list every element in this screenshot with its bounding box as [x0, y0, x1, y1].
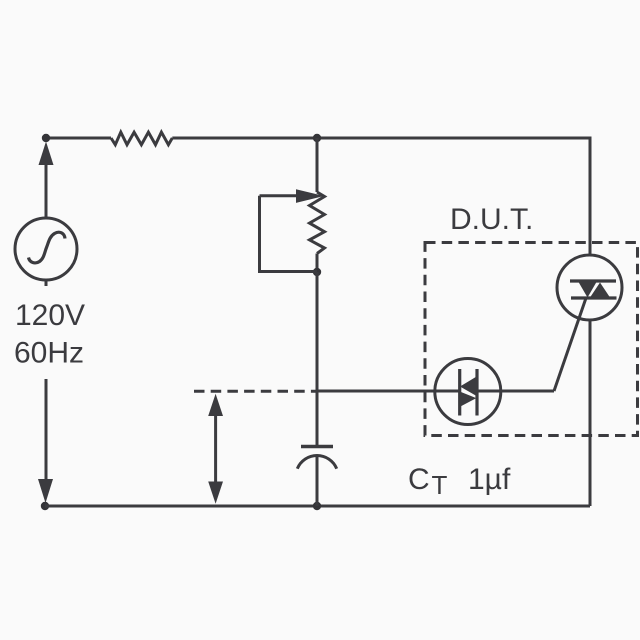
resistor R1 — [111, 132, 172, 145]
arrowhead down at source bottom — [38, 479, 53, 503]
arrowhead up at source top — [39, 142, 54, 166]
AC source sine symbol — [29, 232, 66, 263]
svg-text:1µf: 1µf — [468, 463, 511, 496]
dashed box D.U.T. — [425, 243, 638, 436]
wire node D to diac — [317, 390, 460, 393]
svg-text:60Hz: 60Hz — [14, 337, 84, 370]
triac right triangle — [590, 283, 610, 298]
wire potentiometer to node C — [316, 254, 319, 273]
triac bottom bar — [571, 296, 617, 299]
wire stub below source — [45, 280, 48, 286]
wire triac gate diagonal — [554, 298, 586, 391]
node A — [42, 134, 50, 142]
triac left triangle — [579, 282, 597, 298]
AC source V1 circle — [15, 218, 77, 280]
wire source to bottom arrow — [45, 379, 48, 480]
diac D1 circle — [435, 359, 501, 425]
diac right bar — [475, 369, 478, 416]
svg-text:T: T — [432, 470, 448, 500]
svg-text:C: C — [408, 463, 430, 496]
node B — [313, 134, 321, 142]
wire wiper loop to node C — [260, 196, 318, 272]
svg-text:D.U.T.: D.U.T. — [450, 203, 533, 236]
diac left bar — [458, 369, 461, 416]
triac top bar — [570, 279, 616, 282]
node C — [313, 268, 321, 276]
wire node C down to capacitor — [316, 272, 319, 447]
dashed measurement line — [194, 390, 317, 393]
wire arrow to source circle — [45, 165, 48, 218]
wire top-left (node A to resistor) — [46, 137, 111, 140]
measurement arrowhead up — [208, 394, 223, 416]
capacitor CT top plate — [301, 445, 333, 448]
wire resistor to top-right corner and down to triac — [172, 138, 590, 256]
measurement arrow shaft — [214, 405, 217, 493]
potentiometer R2 zigzag — [310, 192, 325, 254]
potentiometer wiper arrowhead — [296, 189, 324, 203]
node bottom-left — [41, 502, 49, 510]
wire triac bottom to rail — [589, 320, 592, 506]
capacitor CT curved plate — [297, 455, 336, 468]
wire diac to gate corner — [477, 390, 554, 393]
wire node B down to potentiometer — [316, 138, 319, 192]
triac Q1 circle — [557, 255, 622, 320]
node bottom-middle — [313, 502, 321, 510]
wire wiper tail — [260, 194, 297, 197]
wire capacitor to bottom rail — [316, 455, 319, 506]
svg-text:120V: 120V — [15, 299, 85, 332]
measurement arrowhead down — [208, 482, 223, 504]
diac lower triangle — [460, 392, 477, 407]
wire bottom rail — [45, 505, 590, 508]
diac upper triangle — [460, 376, 477, 396]
